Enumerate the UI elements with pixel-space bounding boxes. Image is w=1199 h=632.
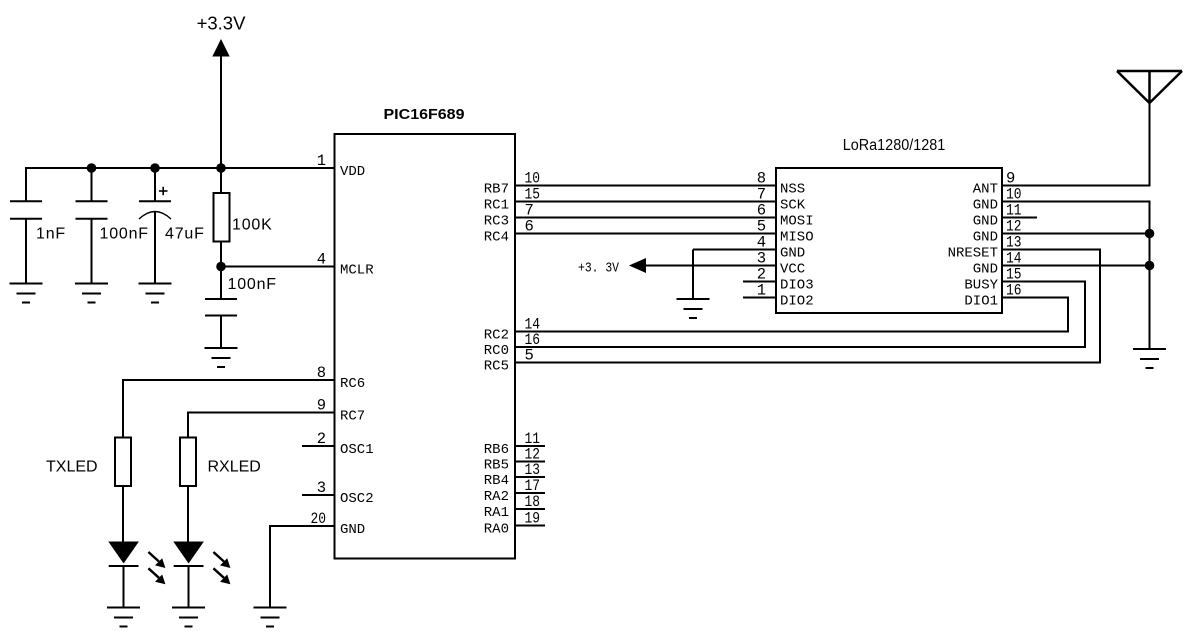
U1 pin 1 (VDD): [317, 152, 366, 180]
capacitor C2 100nF: [76, 201, 108, 218]
wire U2 GND pin4 to ground: [693, 250, 776, 300]
svg-text:ANT: ANT: [973, 181, 998, 197]
svg-text:RC2: RC2: [484, 327, 509, 343]
U2 pin 1 (DIO2): [757, 282, 814, 310]
U2 pin 16 (DIO1): [964, 282, 1021, 310]
U1 pin 13 (RB4): [484, 461, 540, 489]
U2 pin 14 (GND): [973, 250, 1022, 278]
wire RC6 to TX resistor: [123, 379, 335, 438]
U2 pin 9 (ANT): [973, 170, 1016, 198]
wire stub OSC1: [302, 445, 335, 447]
svg-text:VDD: VDD: [340, 164, 365, 180]
U1 pin 20 (GND): [311, 510, 366, 538]
U1 pin 19 (RA0): [484, 510, 540, 538]
U1 pin 8 (RC6): [317, 364, 366, 392]
wire VDD rail: [26, 167, 335, 169]
capacitor C4 100nF: [205, 299, 237, 316]
svg-text:RC5: RC5: [484, 358, 509, 374]
svg-text:LoRa1280/1281: LoRa1280/1281: [843, 137, 946, 154]
junction dot GND14: [1145, 261, 1155, 271]
wire stub U1 pin 11 (RB6): [515, 445, 545, 447]
U2 pin 7 (SCK): [757, 186, 806, 214]
junction dot rail/47uF: [150, 163, 160, 173]
wire rail to R1: [220, 168, 222, 194]
U2 pin 15 (BUSY): [964, 266, 1021, 294]
svg-text:TXLED: TXLED: [46, 459, 98, 476]
U1 pin 3 (OSC2): [317, 479, 374, 507]
wire RC2 to DIO1: [515, 298, 1069, 332]
U2 pin 6 (MOSI): [757, 202, 814, 230]
svg-text:100K: 100K: [232, 217, 273, 234]
svg-text:MCLR: MCLR: [340, 262, 374, 278]
U2 pin 12 (GND): [973, 218, 1022, 246]
U2 pin 11 (GND): [973, 202, 1022, 230]
svg-text:VCC: VCC: [780, 261, 805, 277]
U2 pin 8 (NSS): [757, 170, 806, 198]
svg-text:GND: GND: [973, 261, 998, 277]
junction dot rail/+3.3V/100K: [216, 163, 226, 173]
svg-text:GND: GND: [340, 522, 365, 538]
svg-text:RC1: RC1: [484, 197, 509, 213]
ground (U2 right): [1133, 349, 1166, 368]
wire GND pin10: [1002, 202, 1151, 350]
ground (D1): [107, 608, 140, 627]
svg-text:PIC16F689: PIC16F689: [384, 107, 465, 123]
U1 pin 5 (RC5): [484, 347, 534, 375]
wire VCC to +3.3V arrow: [643, 265, 776, 267]
U1 pin 15 (RC1): [484, 186, 540, 214]
svg-text:RB4: RB4: [484, 473, 509, 489]
resistor R3 (RXLED): [180, 438, 196, 487]
wire rail to C1: [25, 167, 27, 201]
svg-text:OSC2: OSC2: [340, 491, 374, 507]
ground (C2): [75, 284, 108, 303]
wire GND pin14: [1002, 265, 1150, 267]
wire RC3-MOSI: [515, 217, 776, 219]
wire stub DIO3: [743, 281, 776, 283]
wire stub OSC2: [302, 494, 335, 496]
wire RB7-NSS: [515, 185, 776, 187]
wire R3 to LED D2: [187, 486, 189, 542]
U1 pin 2 (OSC1): [317, 430, 374, 458]
capacitor C3 47uF (electrolytic): [139, 187, 171, 219]
U1 pin 18 (RA1): [484, 493, 540, 521]
U2 pin 10 (GND): [973, 186, 1022, 214]
svg-text:4: 4: [317, 251, 326, 269]
svg-text:100nF: 100nF: [100, 226, 149, 243]
svg-text:RB5: RB5: [484, 457, 509, 473]
wire C2 to ground: [91, 219, 93, 284]
ground (U2 GND4): [677, 299, 710, 318]
IC U1 PIC16F689 body: [335, 134, 516, 559]
svg-text:RA1: RA1: [484, 505, 509, 521]
wire R1 to MCLR node: [220, 242, 222, 267]
U1 pin 12 (RB5): [484, 446, 540, 474]
svg-text:MISO: MISO: [780, 229, 814, 245]
ground (D2): [172, 608, 205, 627]
wire stub U1 pin 17 (RA2): [515, 492, 545, 494]
wire rail to C3: [154, 168, 156, 201]
wire stub DIO2: [743, 297, 776, 299]
antenna E1: [1117, 71, 1182, 103]
svg-text:DIO3: DIO3: [780, 277, 814, 293]
wire ANT line: [1002, 102, 1151, 186]
wire RC7 to RX resistor: [188, 412, 335, 439]
power +3.3V supply symbol: [197, 13, 247, 57]
svg-text:RC6: RC6: [340, 376, 365, 392]
wire D2 to ground: [188, 566, 190, 608]
wire RC5 to NRESET: [515, 250, 1101, 363]
svg-text:GND: GND: [973, 213, 998, 229]
svg-text:RC3: RC3: [484, 213, 509, 229]
wire stub U1 pin 13 (RB4): [515, 476, 545, 478]
wire D1 to ground: [123, 566, 125, 608]
wire MCLR line: [221, 266, 335, 268]
LED D2 (RX): [173, 542, 204, 567]
svg-text:RB7: RB7: [484, 181, 509, 197]
svg-text:1: 1: [317, 152, 326, 170]
U1 pin 11 (RB6): [484, 430, 540, 458]
U2 pin 4 (GND): [757, 234, 806, 262]
svg-text:RXLED: RXLED: [208, 459, 261, 476]
wire GND pin12: [1002, 233, 1150, 235]
junction dot MCLR node: [216, 262, 226, 272]
svg-text:RC0: RC0: [484, 343, 509, 359]
wire RC0 to BUSY: [515, 282, 1086, 348]
capacitor C1 1nF: [10, 201, 42, 218]
wire R2 to LED D1: [122, 486, 124, 542]
svg-text:47uF: 47uF: [165, 226, 205, 243]
U1 pin 4 (MCLR): [317, 251, 375, 279]
svg-text:NSS: NSS: [780, 181, 805, 197]
U1 pin 10 (RB7): [484, 170, 540, 198]
svg-text:1nF: 1nF: [36, 226, 66, 243]
svg-text:RC4: RC4: [484, 229, 509, 245]
svg-text:GND: GND: [973, 197, 998, 213]
power +3.3V arrow (VCC): [629, 258, 646, 273]
svg-text:MOSI: MOSI: [780, 213, 814, 229]
U2 pin 5 (MISO): [757, 218, 814, 246]
U1 pin 17 (RA2): [484, 477, 540, 505]
ground (U1 GND): [254, 608, 287, 627]
wire C3 to ground: [154, 211, 156, 284]
wire C4 to ground: [220, 316, 222, 349]
U1 pin 16 (RC0): [484, 331, 540, 359]
IC U2 LoRa1280/1281 body: [776, 168, 1002, 313]
junction dot rail/100nF: [87, 163, 97, 173]
svg-text:OSC1: OSC1: [340, 442, 374, 458]
svg-text:NRESET: NRESET: [948, 245, 998, 261]
svg-text:RB6: RB6: [484, 442, 509, 458]
U1 pin 6 (RC4): [484, 218, 534, 246]
svg-text:RC7: RC7: [340, 408, 365, 424]
ground (C3): [139, 284, 172, 303]
wire GND pin to ground: [270, 525, 335, 608]
svg-text:BUSY: BUSY: [964, 277, 998, 293]
svg-text:RA2: RA2: [484, 489, 509, 505]
wire stub U1 pin 19 (RA0): [515, 525, 545, 527]
LED D1 light arrows: [148, 552, 165, 584]
U2 pin 2 (DIO3): [757, 266, 814, 294]
wire +3.3V to VDD rail: [220, 54, 222, 169]
resistor R1 100K: [214, 193, 230, 242]
svg-text:100nF: 100nF: [228, 276, 277, 293]
U2 pin 13 (NRESET): [948, 234, 1022, 262]
junction dot GND12: [1145, 229, 1155, 239]
wire stub U1 pin 18 (RA1): [515, 508, 545, 510]
wire RC4-MISO: [515, 233, 776, 235]
svg-text:+3. 3V: +3. 3V: [578, 261, 619, 277]
svg-text:+3.3V: +3.3V: [197, 13, 247, 34]
svg-text:DIO1: DIO1: [964, 293, 998, 309]
wire RC1-SCK: [515, 201, 776, 203]
U1 pin 7 (RC3): [484, 202, 534, 230]
U1 pin 14 (RC2): [484, 316, 540, 344]
wire rail to C2: [91, 168, 93, 201]
ground (C4): [205, 348, 238, 367]
U2 pin 3 (VCC): [757, 250, 806, 278]
svg-text:GND: GND: [973, 229, 998, 245]
resistor R2 (TXLED): [115, 438, 131, 487]
ground (C1): [10, 284, 43, 303]
LED D2 light arrows: [213, 552, 230, 584]
svg-text:RA0: RA0: [484, 521, 509, 537]
wire stub U1 pin 12 (RB5): [515, 461, 545, 463]
wire stub GND pin11: [1002, 217, 1037, 219]
svg-text:GND: GND: [780, 245, 805, 261]
wire C1 to ground: [25, 219, 27, 284]
U1 pin 9 (RC7): [317, 397, 366, 425]
wire MCLR node to C4: [220, 267, 222, 300]
svg-text:DIO2: DIO2: [780, 293, 814, 309]
LED D1 (TX): [108, 542, 139, 567]
svg-text:SCK: SCK: [780, 197, 806, 213]
